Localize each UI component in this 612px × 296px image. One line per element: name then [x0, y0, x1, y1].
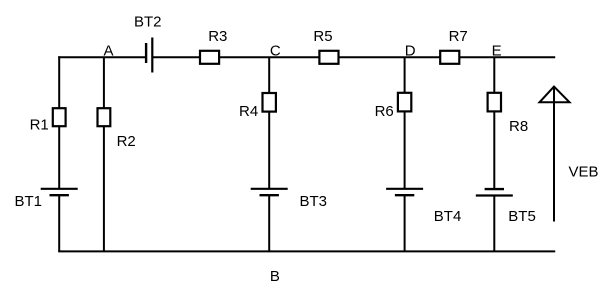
- svg-text:BT2: BT2: [134, 14, 162, 31]
- svg-text:E: E: [492, 43, 502, 60]
- svg-text:BT3: BT3: [300, 193, 328, 210]
- wire node E vertical branch (lower, BT5 to bottom rail): [493, 196, 495, 252]
- resistor R2: [98, 108, 111, 126]
- battery BT3 positive plate (long): [251, 188, 288, 190]
- battery BT2 positive plate (long, right): [151, 38, 153, 73]
- svg-text:R5: R5: [313, 28, 332, 45]
- resistor R5: [319, 51, 338, 64]
- svg-text:R1: R1: [30, 117, 49, 134]
- svg-text:BT4: BT4: [434, 208, 462, 225]
- resistor R7: [440, 51, 459, 64]
- battery BT4 negative plate (short): [395, 194, 414, 196]
- svg-text:BT1: BT1: [15, 193, 43, 210]
- svg-text:C: C: [270, 43, 281, 60]
- wire node C vertical branch (upper, C to BT3): [268, 57, 270, 189]
- resistor R1: [53, 108, 66, 126]
- battery BT4 positive plate (long): [386, 188, 423, 190]
- resistor R4: [263, 93, 276, 112]
- wire node A vertical branch: [103, 57, 105, 251]
- battery BT1 positive plate (long): [41, 188, 78, 190]
- battery BT2 negative plate (short, left): [145, 43, 147, 63]
- battery BT5 positive plate (long, bottom): [476, 194, 513, 196]
- wire node D vertical branch (upper, D to BT4): [404, 57, 406, 189]
- resistor R8: [488, 93, 501, 112]
- wire node E vertical branch (upper, E to BT5): [493, 57, 495, 189]
- svg-text:R4: R4: [239, 103, 258, 120]
- wire top horizontal (left segment, corner to BT2): [58, 56, 146, 58]
- VEB arrow shaft: [553, 87, 555, 222]
- svg-text:B: B: [270, 268, 280, 285]
- svg-text:R3: R3: [208, 28, 227, 45]
- wire bottom horizontal (node B rail): [58, 250, 555, 252]
- resistor R3: [200, 51, 219, 64]
- svg-text:A: A: [104, 42, 114, 59]
- wire node C vertical branch (lower, BT3 to bottom rail): [268, 195, 270, 251]
- battery BT1 negative plate (short): [50, 194, 69, 196]
- VEB arrowhead (open triangle): [540, 87, 570, 103]
- svg-text:R7: R7: [449, 28, 468, 45]
- wire node D vertical branch (lower, BT4 to bottom rail): [404, 195, 406, 251]
- battery BT3 negative plate (short): [260, 194, 279, 196]
- svg-text:R6: R6: [375, 103, 394, 120]
- svg-text:BT5: BT5: [508, 208, 536, 225]
- svg-text:D: D: [405, 42, 416, 59]
- battery BT5 negative plate (short, top): [485, 188, 504, 190]
- svg-text:R8: R8: [509, 118, 528, 135]
- wire top horizontal (BT2 to E, right end): [152, 56, 555, 58]
- wire left vertical branch (upper, corner to BT1): [58, 56, 60, 189]
- svg-text:R2: R2: [117, 133, 136, 150]
- svg-text:VEB: VEB: [569, 163, 599, 180]
- wire left vertical branch (lower, BT1 to bottom rail): [58, 195, 60, 251]
- resistor R6: [398, 93, 411, 112]
